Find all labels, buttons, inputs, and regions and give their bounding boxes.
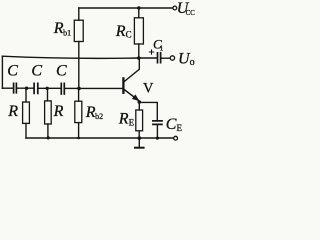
wire: base node to transistor base — [79, 87, 123, 89]
wire: bottom ground rail — [26, 137, 174, 139]
wire: Rc top lead — [138, 8, 140, 18]
wire: R (second) bottom lead — [47, 124, 49, 138]
capacitor C1 plates — [158, 53, 161, 63]
node: first RC junction — [25, 87, 28, 90]
node: collector junction — [137, 56, 141, 60]
resistor Rb1 — [74, 20, 83, 41]
wire: R (first) bottom lead — [25, 123, 27, 138]
terminal: bottom right — [174, 136, 178, 140]
wire: segment C1-C2 — [17, 87, 33, 89]
capacitor Ce plates — [153, 121, 162, 125]
resistor Re — [136, 110, 143, 131]
transistor V emitter stroke — [124, 89, 139, 100]
wire: emitter node to Re — [138, 102, 140, 110]
node: R second on rail — [47, 136, 50, 139]
wire: C1 to Uo terminal — [162, 57, 171, 59]
wire: Ce bottom lead — [156, 125, 158, 138]
wire: segment to first C — [2, 87, 12, 89]
node: emitter junction — [138, 100, 142, 104]
wire: collector node to C1 — [139, 57, 157, 59]
capacitor C (first) — [14, 83, 17, 92]
svg-text:C: C — [31, 63, 42, 80]
resistor Rb2 — [75, 101, 82, 122]
wire: feedback line from collector node to left — [2, 56, 138, 58]
svg-text:C: C — [56, 63, 67, 80]
capacitor C (second) — [34, 83, 38, 93]
wire: R (first) top lead — [25, 88, 27, 102]
ground symbol stem — [138, 138, 140, 147]
wire: left vertical feedback drop — [1, 56, 3, 88]
transistor V collector stroke — [124, 58, 139, 82]
wire: R (second) top lead — [47, 88, 49, 101]
wire: Re bottom lead — [138, 131, 140, 138]
wire: segment C2-C3 — [39, 87, 61, 89]
wire: Rb1 top lead — [78, 8, 80, 20]
svg-text:R: R — [53, 103, 64, 120]
wire: emitter node across to Ce — [139, 102, 157, 120]
resistor R (first) — [23, 102, 30, 123]
node: base bias junction — [77, 87, 81, 91]
ground symbol bar — [135, 147, 144, 149]
resistor Rc — [134, 18, 143, 44]
node: Re on rail — [138, 136, 142, 140]
node: junction Rc / supply rail — [137, 6, 140, 9]
transistor V base bar — [122, 78, 124, 92]
wire: top supply rail — [79, 7, 173, 9]
wire: segment C3 to base node — [65, 87, 79, 89]
node: Ce on rail — [156, 137, 159, 140]
node: Rb2 on rail — [77, 137, 80, 140]
node: second RC junction — [46, 87, 49, 90]
wire: Rb2 bottom lead — [78, 123, 80, 138]
wire: Rb2 top lead — [78, 88, 80, 101]
terminal: Uo — [170, 56, 174, 60]
C1 polarity plus sign — [149, 50, 153, 54]
resistor R (second) — [45, 101, 52, 124]
svg-text:R: R — [7, 103, 18, 120]
terminal: Ucc — [173, 6, 177, 10]
wire: Rc bottom lead — [138, 44, 140, 58]
transistor V emitter arrowhead — [132, 94, 140, 101]
capacitor C (third) — [61, 83, 64, 94]
wire: Rb1 bottom lead down to base node — [78, 42, 80, 89]
svg-text:C: C — [7, 63, 18, 80]
svg-text:V: V — [143, 81, 154, 97]
